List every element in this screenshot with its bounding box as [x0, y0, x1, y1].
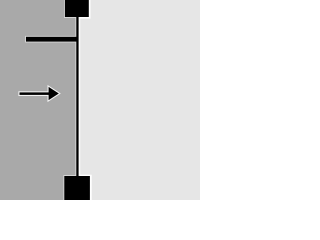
right panel background	[78, 0, 201, 200]
wire: horizontal gate bar	[26, 37, 78, 42]
soft white halo outlines under black shapes	[26, 0, 90, 204]
arrow halo	[20, 87, 59, 100]
arrow head	[49, 87, 59, 100]
contact S (bottom square)	[64, 176, 90, 204]
strong white edge right of bottom contact	[90, 176, 92, 200]
wire: vertical channel line	[76, 15, 78, 178]
strong white edge right of top contact	[89, 0, 91, 17]
left panel background	[0, 0, 78, 200]
white strip above bottom contact (light side)	[79, 175, 92, 176]
strong white edge right of vertical line	[79, 15, 81, 178]
contact D (top square)	[65, 0, 89, 17]
white strip under top contact (light side)	[79, 17, 91, 19]
arrow shaft	[20, 92, 51, 95]
